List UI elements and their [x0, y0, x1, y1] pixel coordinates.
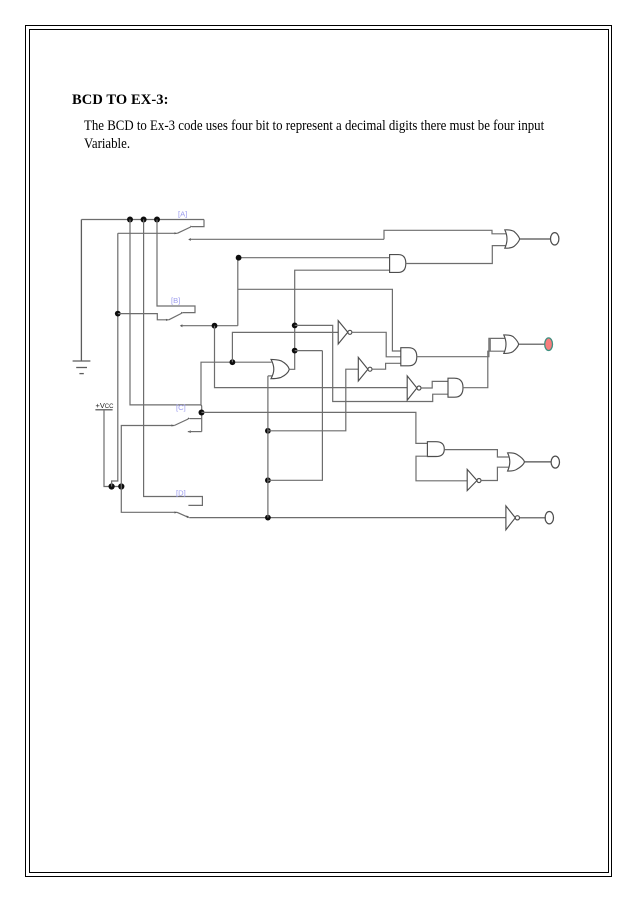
power +Vcc [95, 401, 114, 410]
not-gate U12 [506, 506, 520, 530]
and-gate U2 [390, 255, 406, 273]
paragraph [84, 117, 547, 153]
wire C row to NOT U7 input [268, 369, 358, 431]
wire vcc rail to switches A and B pivots [112, 233, 118, 486]
wire U12 output [520, 517, 546, 519]
wire U3 output to OR U4 top input [417, 338, 505, 356]
probe X4 [545, 512, 553, 524]
wire ground top bus [81, 219, 204, 221]
wire tap1 to AND U9 lower input [295, 325, 449, 401]
wire vcc rail to switch D pivot [121, 487, 177, 513]
and-gate U10 [427, 442, 444, 457]
wire U4 notch [489, 338, 491, 351]
node vcc-junction-1 [109, 483, 115, 489]
wire gnd tap to AND U10 input [202, 412, 428, 443]
switch J2 [B] [157, 220, 195, 322]
node vcc-junction-2 [118, 483, 124, 489]
wire U11 output [525, 461, 552, 463]
wire B up to AND U2 input [238, 258, 390, 326]
wire vcc rail to switch C pivot [121, 426, 174, 487]
and-gate U9 [448, 378, 463, 397]
svg-text:[C]: [C] [176, 403, 186, 412]
probe X2 (lit) [545, 338, 553, 351]
switch J4 [D] [144, 220, 203, 519]
ground [73, 220, 91, 374]
and-gate U3 [401, 348, 417, 366]
wire switch D output row to NOT U12 [189, 517, 506, 519]
wire U6 output up to AND U2 bottom input [289, 270, 390, 369]
node C-gnd-tap [199, 410, 205, 416]
probe X3 [551, 456, 559, 468]
or-gate U4 [504, 335, 519, 353]
node gnd-tap-C [127, 217, 133, 223]
wire U10 bottom input loop to NOT U13 [416, 456, 467, 481]
not-gate U7 [358, 357, 372, 381]
wire switch A output [188, 238, 384, 241]
wire U8 output to AND U9 top input [421, 381, 448, 388]
node gnd-tap-B [154, 217, 160, 223]
node U6out-tap2 [292, 348, 298, 354]
svg-text:+VCC: +VCC [96, 401, 115, 410]
node U6out-tap1 [292, 323, 298, 329]
wire C net vertical [267, 376, 269, 518]
switch J3 [C] [130, 220, 202, 432]
wire U7 output to AND U3 bottom input [372, 363, 401, 369]
node mid junction y480 [265, 477, 271, 483]
wire U1 output [520, 238, 551, 240]
node D-row junction [265, 515, 271, 521]
wire U5 output to AND U3 mid input [352, 332, 401, 357]
node gnd-net-tap [230, 359, 236, 365]
wire B branch to AND U3 top input [238, 289, 401, 351]
wire U2 output to OR U1 bottom input [406, 246, 506, 264]
switch J1 [A] [174, 220, 204, 235]
svg-text:[A]: [A] [178, 210, 187, 219]
wire U10 output to OR U11 top input [444, 450, 508, 457]
svg-text:[D]: [D] [176, 489, 186, 498]
wire U4 output [519, 343, 545, 345]
wire switch C output [188, 430, 202, 433]
node gnd-tap-D [141, 217, 147, 223]
wire gnd-net to OR U6 top input [201, 362, 272, 405]
wire pivot feed switch B [118, 314, 169, 320]
wire U9 output to OR U4 bottom input [463, 351, 505, 388]
or-gate U1 [505, 230, 520, 248]
node C-row junction [265, 428, 271, 434]
node B-row-junction [212, 323, 218, 329]
or-gate U6 [271, 359, 289, 378]
probe X1 [551, 233, 559, 245]
node B-corner [236, 255, 242, 261]
wire y480 branch [268, 351, 323, 481]
wire tap2 down [295, 350, 323, 352]
wire A to OR U1 [384, 230, 506, 239]
wire B down to NOT U8 input [215, 326, 408, 388]
wire to NOT U5 input [232, 332, 338, 362]
not-gate U8 [407, 376, 421, 400]
heading [72, 92, 169, 109]
wire U13 output to OR U11 bottom input [481, 467, 509, 480]
not-gate U13 [467, 469, 481, 490]
wire pivot feed switch A [118, 232, 178, 234]
wire vcc feed [104, 410, 121, 486]
node B-pivot-tap [115, 311, 121, 317]
not-gate U5 [338, 321, 352, 344]
svg-text:[B]: [B] [171, 296, 180, 305]
or-gate U11 [508, 453, 525, 471]
wire switch B output [180, 324, 238, 327]
